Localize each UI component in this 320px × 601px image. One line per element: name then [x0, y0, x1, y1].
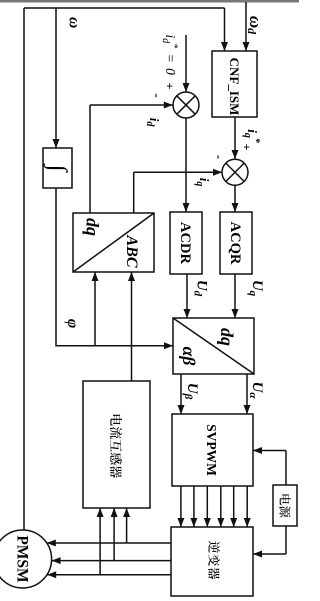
svg-text:φ: φ [64, 319, 81, 328]
svg-text:-: - [212, 155, 227, 159]
svg-text:+: + [163, 83, 177, 90]
svg-text:ω: ω [66, 17, 83, 28]
svg-text:-: - [150, 93, 165, 97]
svg-text:dq: dq [217, 328, 237, 346]
svg-text:SVPWM: SVPWM [204, 424, 219, 476]
svg-text:dq: dq [83, 218, 103, 236]
svg-text:PMSM: PMSM [14, 535, 31, 583]
svg-text:ACDR: ACDR [177, 222, 193, 264]
svg-text:αβ: αβ [179, 347, 199, 366]
svg-text:ACQR: ACQR [227, 222, 243, 265]
svg-text:CNF_ISM: CNF_ISM [227, 58, 242, 116]
svg-text:ABC: ABC [123, 234, 140, 267]
svg-text:+: + [240, 144, 254, 151]
svg-text:∫: ∫ [43, 163, 71, 173]
